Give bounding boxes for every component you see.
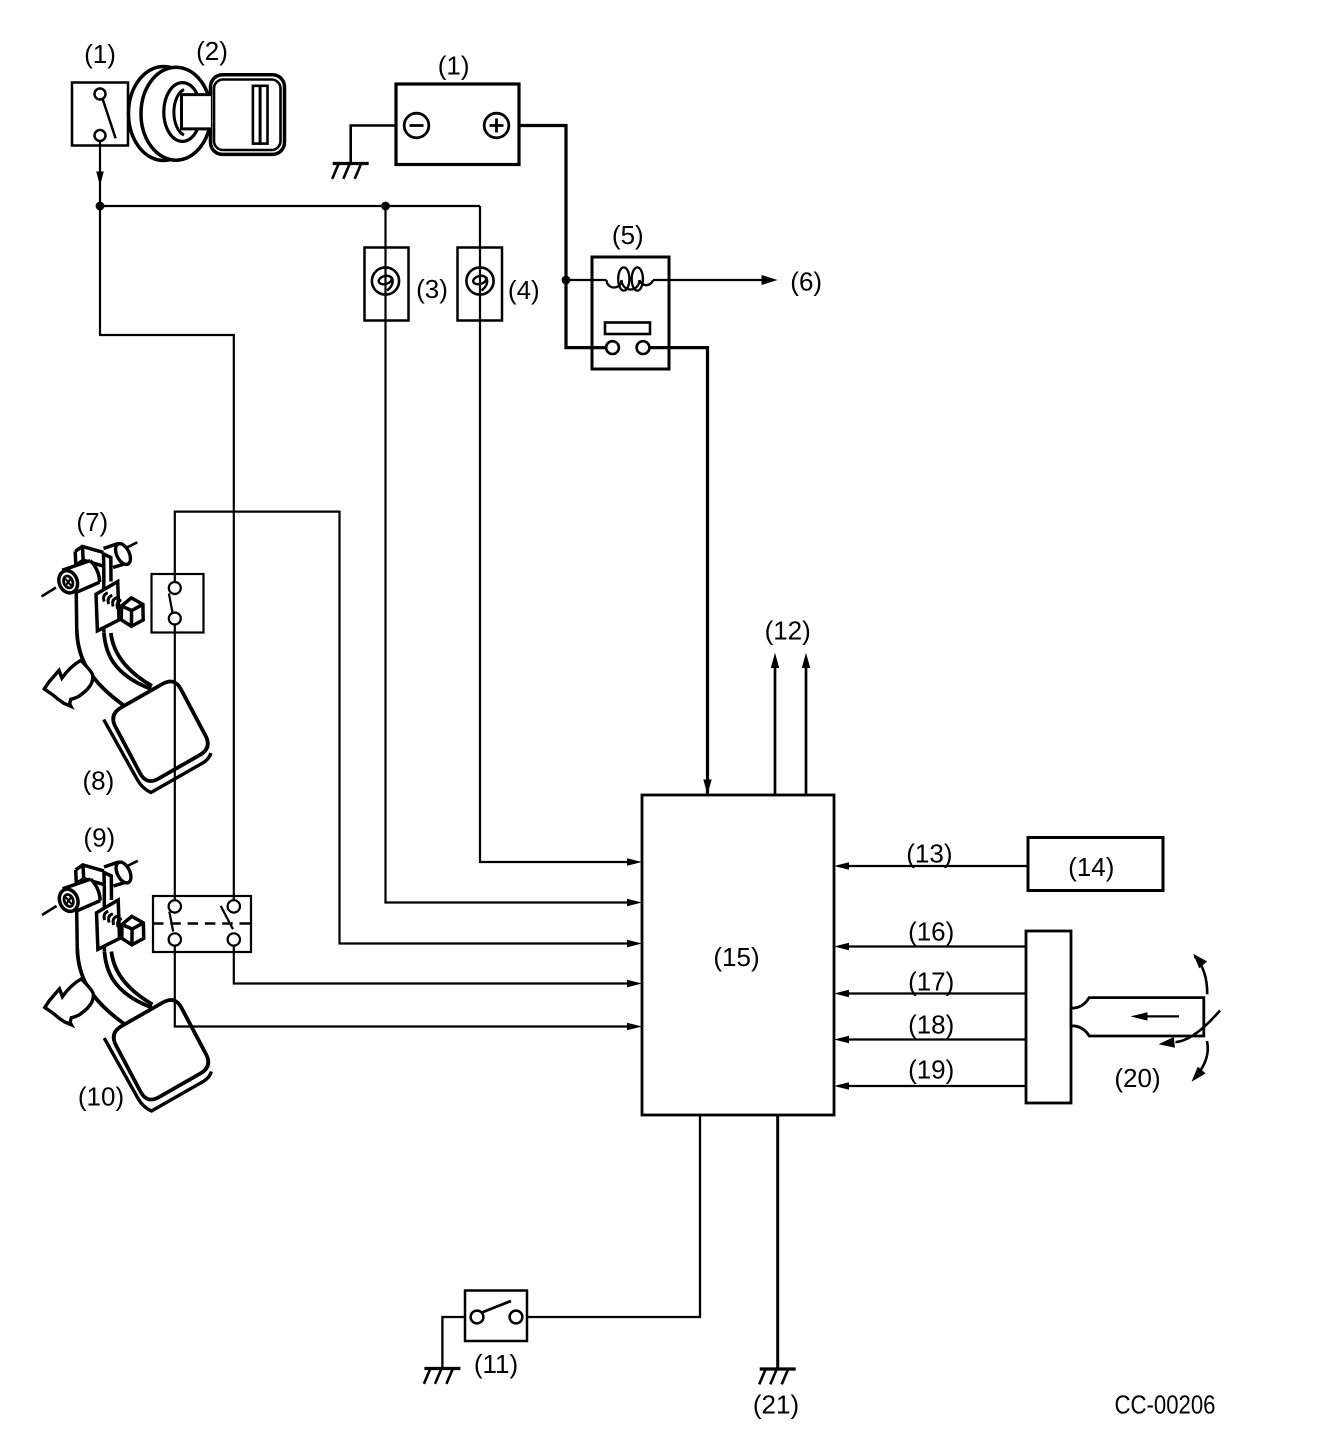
svg-text:(5): (5) (612, 220, 644, 250)
svg-text:(6): (6) (790, 266, 822, 296)
svg-text:(7): (7) (76, 507, 108, 537)
svg-text:(11): (11) (474, 1349, 518, 1379)
svg-text:(3): (3) (416, 274, 448, 304)
svg-text:(4): (4) (508, 275, 540, 305)
svg-text:(15): (15) (713, 942, 759, 972)
svg-text:(19): (19) (908, 1055, 954, 1085)
svg-text:(1): (1) (84, 39, 116, 69)
svg-text:CC-00206: CC-00206 (1115, 1390, 1216, 1420)
svg-text:(8): (8) (83, 766, 115, 796)
svg-text:(2): (2) (196, 36, 228, 66)
svg-text:(17): (17) (908, 967, 954, 997)
svg-text:(9): (9) (83, 823, 115, 853)
svg-text:(21): (21) (753, 1390, 799, 1420)
svg-text:(16): (16) (908, 917, 954, 947)
svg-text:(14): (14) (1068, 852, 1114, 882)
svg-text:(13): (13) (906, 838, 952, 868)
svg-text:(20): (20) (1114, 1063, 1160, 1093)
svg-text:(1): (1) (438, 51, 470, 81)
svg-text:(18): (18) (908, 1010, 954, 1040)
svg-text:(10): (10) (78, 1081, 124, 1111)
svg-text:(12): (12) (765, 616, 811, 646)
